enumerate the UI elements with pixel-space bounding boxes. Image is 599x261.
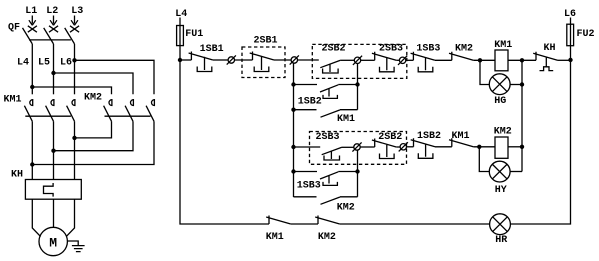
wire KH to motor lead2 xyxy=(53,199,55,227)
wire HY branch right xyxy=(510,171,522,173)
junction HG right xyxy=(520,82,524,86)
wire 2SB1 to terminal xyxy=(274,59,291,61)
wire 1SB3 row left xyxy=(294,171,318,173)
wire KM2 seal row left xyxy=(294,196,317,198)
junction 1SB3 row right xyxy=(355,169,359,173)
junction L6 tap xyxy=(72,58,76,62)
svg-text:KM2: KM2 xyxy=(455,44,473,55)
wire coil KM1 to KH xyxy=(508,59,536,61)
junction V crossover xyxy=(51,149,55,153)
junction 1SB3 row left xyxy=(291,169,295,173)
wire rung1 feed xyxy=(180,59,191,61)
wire phase3 L6 vertical xyxy=(74,44,76,94)
svg-text:KM1: KM1 xyxy=(4,95,22,106)
svg-text:1SB2: 1SB2 xyxy=(298,97,322,108)
breaker QF linkage bar xyxy=(29,39,71,41)
wire 1SB2 row left xyxy=(294,84,318,86)
terminal connector X6 xyxy=(400,144,406,150)
wire KM1 seal row right xyxy=(340,109,358,111)
wire KH to right rail xyxy=(558,59,571,61)
wire KM2 pole2 output crossover xyxy=(54,121,134,150)
wire node A branch down xyxy=(293,63,295,197)
pushbutton 2SB3 (NO start rev) xyxy=(322,147,342,160)
wire 2SB3 to terminal X4 xyxy=(396,59,399,61)
wire 2SB3 to terminal X5 xyxy=(342,146,354,148)
supply arrow L3 xyxy=(71,16,78,26)
station2 box for 2SB2/2SB3 xyxy=(312,44,407,78)
wire node B to 2SB3 xyxy=(361,59,375,61)
fuse FU1 xyxy=(177,26,184,46)
wire 1SB3 to KM2 interlock xyxy=(435,59,452,61)
svg-text:HG: HG xyxy=(494,96,506,107)
pushbutton 1SB3 (NO start rev) xyxy=(320,172,338,186)
contactor KM2 linkage bar xyxy=(105,115,151,117)
thermal relay KH heater box xyxy=(25,180,81,200)
pushbutton 2SB2 (NC interlock) xyxy=(372,139,396,159)
wire node B branch down xyxy=(357,64,359,110)
junction right rail top xyxy=(568,58,572,62)
motor M circle xyxy=(39,227,67,255)
contactor KM1 main contact pole1 xyxy=(24,100,32,122)
thermal relay KH heater element xyxy=(44,183,54,197)
junction L4 tap xyxy=(30,85,34,89)
contact KM2 NC (HR chain) xyxy=(315,216,340,225)
svg-text:L6: L6 xyxy=(60,58,72,69)
wire 1SB2 row right xyxy=(338,84,357,86)
wire KM2 seal row right xyxy=(340,196,358,198)
contactor KM1 main contact pole2 xyxy=(46,100,54,122)
breaker QF pole 3 xyxy=(65,26,79,44)
svg-text:KM2: KM2 xyxy=(318,232,336,243)
wire motor to ground xyxy=(67,241,78,246)
wire HY branch left xyxy=(479,147,489,172)
wire phase1 L4 vertical xyxy=(31,44,33,94)
wire X4 to 1SB3 xyxy=(406,59,414,61)
terminal connector X1 xyxy=(228,57,234,63)
contact KM1 NC interlock xyxy=(449,138,473,147)
pushbutton 1SB3 (NC interlock) xyxy=(411,52,435,72)
terminal connector X2 / node A xyxy=(291,57,297,63)
junction rung2 left xyxy=(291,145,295,149)
contact KM1 NC (HR chain) xyxy=(266,216,291,225)
junction HG branch xyxy=(478,58,482,62)
wire HG branch left xyxy=(480,60,489,84)
wire KH to motor lead3 xyxy=(66,199,74,236)
ground xyxy=(72,246,85,252)
pushbutton 1SB2 (NO start fwd) xyxy=(320,85,338,99)
contact KM2 NC interlock xyxy=(449,52,473,61)
wire KM2 pole3 output crossover xyxy=(32,121,154,164)
contactor KM1 main contact pole3 xyxy=(67,100,75,122)
junction control feed xyxy=(178,58,182,62)
coil KM2 xyxy=(495,137,508,158)
terminal connector X4 xyxy=(399,57,405,63)
station2 box for 2SB3/2SB2 lower xyxy=(310,132,407,165)
svg-text:1SB3: 1SB3 xyxy=(297,181,321,192)
contactor KM2 main contact pole1 xyxy=(104,100,112,122)
wire terminal to 2SB1 xyxy=(235,59,253,61)
svg-text:L4: L4 xyxy=(175,9,187,20)
coil KM1 xyxy=(495,50,508,71)
svg-text:2SB3: 2SB3 xyxy=(316,132,340,143)
wire left rail down xyxy=(180,60,269,224)
svg-text:L4: L4 xyxy=(17,58,29,69)
svg-text:1SB1: 1SB1 xyxy=(200,44,224,55)
wire KM1 pole1 output xyxy=(31,121,33,179)
svg-text:KM2: KM2 xyxy=(494,127,512,138)
junction coil KM2 output xyxy=(520,145,524,149)
junction L5 tap xyxy=(51,71,55,75)
svg-text:KM1: KM1 xyxy=(494,40,512,51)
pushbutton 1SB2 (NC interlock) xyxy=(411,138,435,158)
svg-text:2SB2: 2SB2 xyxy=(378,132,402,143)
wire L5 to KM2 pole2 top xyxy=(54,73,134,94)
junction 1SB2 row left xyxy=(291,82,295,86)
junction HY branch xyxy=(477,145,481,149)
svg-text:KH: KH xyxy=(11,170,23,181)
svg-text:2SB3: 2SB3 xyxy=(379,44,403,55)
svg-text:HY: HY xyxy=(495,185,507,196)
pushbutton 2SB2 (NO start fwd) xyxy=(320,60,340,73)
wire 1SB3 row right xyxy=(338,171,357,173)
contactor KM2 main contact pole3 xyxy=(146,100,154,122)
wire KH to motor lead1 xyxy=(32,199,40,236)
junction W crossover xyxy=(30,162,34,166)
wire L6 to KM2 pole3 top xyxy=(75,60,155,94)
svg-text:KM1: KM1 xyxy=(266,232,284,243)
wire phase2 L5 vertical xyxy=(53,44,55,94)
svg-text:QF: QF xyxy=(8,23,20,34)
svg-text:L1: L1 xyxy=(25,6,37,17)
lamp HG xyxy=(489,74,510,95)
wire L4 to KM2 pole1 top xyxy=(32,87,111,94)
svg-text:KM1: KM1 xyxy=(452,131,470,142)
wire KM2 to lamp HR xyxy=(340,223,490,225)
wire coil KM2 output xyxy=(508,146,522,148)
contact KM1 NO seal-in xyxy=(321,110,341,117)
svg-text:2SB2: 2SB2 xyxy=(322,44,346,55)
wire KM1 pole3 output xyxy=(74,121,76,179)
svg-text:FU2: FU2 xyxy=(577,29,595,40)
thermal contact KH (NC) xyxy=(533,52,557,71)
contact KM2 NO seal-in xyxy=(321,197,341,204)
wire KM2 pole1 output crossover xyxy=(75,121,112,138)
station2 box for 2SB1 xyxy=(242,47,285,78)
wire L4 into fuse FU1 xyxy=(179,18,181,61)
wire KM1 to KM2 bottom xyxy=(291,223,318,225)
pushbutton 1SB1 (NC stop) xyxy=(189,52,213,72)
lamp HR xyxy=(490,214,511,235)
svg-text:KM1: KM1 xyxy=(337,114,355,125)
breaker QF pole 2 xyxy=(44,26,58,44)
terminal connector X3 / node B xyxy=(354,57,360,63)
wire KM2 interlock to coil KM1 xyxy=(473,59,495,61)
terminal connector X5 / node B2 xyxy=(354,144,360,150)
svg-text:KM2: KM2 xyxy=(337,203,355,214)
supply arrow L2 xyxy=(50,16,57,26)
svg-text:1SB2: 1SB2 xyxy=(417,131,441,142)
wire lamp bus vertical xyxy=(521,60,523,171)
wire 1SB1 to terminal xyxy=(213,59,228,61)
breaker QF pole 1 xyxy=(23,26,37,44)
wire KM1 seal row left xyxy=(294,109,317,111)
wire 2SB2 to terminal X6 xyxy=(396,146,400,148)
contactor KM1 linkage bar xyxy=(25,115,71,117)
junction 1SB2 row right xyxy=(355,82,359,86)
wire KM1 pole2 output xyxy=(53,121,55,179)
wire right rail down xyxy=(510,60,570,224)
lamp HY xyxy=(489,161,510,182)
contactor KM2 main contact pole2 xyxy=(125,100,133,122)
wire 1SB2 to KM1 interlock xyxy=(435,146,452,148)
pushbutton 2SB3 (NC interlock) xyxy=(372,52,396,72)
svg-text:1SB3: 1SB3 xyxy=(416,44,440,55)
wire 2SB2 to terminal X3 xyxy=(340,59,354,61)
svg-text:HR: HR xyxy=(495,235,507,246)
wire node B2 branch down xyxy=(357,150,359,197)
wire KM1 interlock to coil KM2 xyxy=(473,146,495,148)
svg-text:2SB1: 2SB1 xyxy=(254,36,278,47)
svg-text:L5: L5 xyxy=(38,58,50,69)
junction U crossover xyxy=(72,136,76,140)
pushbutton 2SB1 (NC stop) xyxy=(250,52,274,72)
wire node A to 2SB2 xyxy=(298,59,319,61)
svg-text:KM2: KM2 xyxy=(84,93,102,104)
junction coil KM1 output xyxy=(520,58,524,62)
junction KM1 row left xyxy=(291,108,295,112)
wire node B2 to 2SB2 lower xyxy=(360,146,375,148)
svg-text:M: M xyxy=(49,235,57,250)
fuse FU2 xyxy=(567,24,574,46)
wire X6 to 1SB2 interlock xyxy=(407,146,414,148)
svg-text:KH: KH xyxy=(544,43,556,54)
wire L6 into fuse FU2 xyxy=(570,18,572,60)
wire rung2 feed xyxy=(294,146,321,148)
svg-text:FU1: FU1 xyxy=(185,29,203,40)
wire HG branch right xyxy=(510,84,522,86)
svg-text:L2: L2 xyxy=(46,6,58,17)
svg-text:L3: L3 xyxy=(71,6,83,17)
supply arrow L1 xyxy=(29,16,36,26)
